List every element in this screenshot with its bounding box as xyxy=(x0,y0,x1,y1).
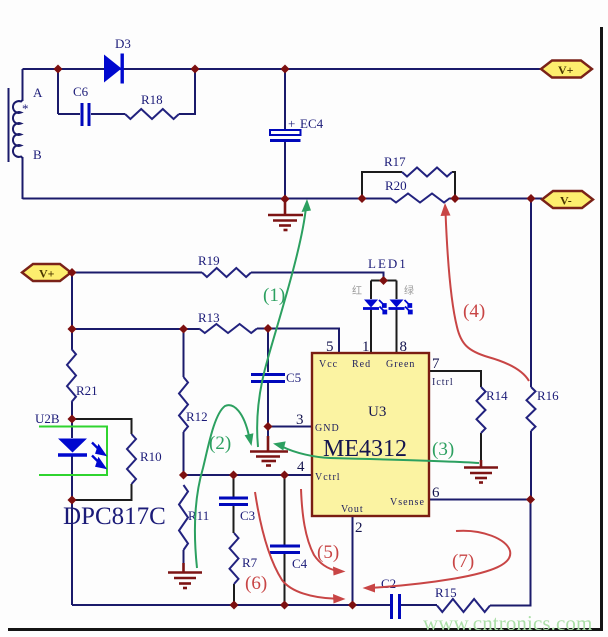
svg-text:EC4: EC4 xyxy=(300,116,324,131)
junction pin4 rail / R12 R11 xyxy=(179,470,188,479)
svg-text:C4: C4 xyxy=(292,556,308,571)
resistor R15 xyxy=(437,599,490,612)
wire C5 top lead xyxy=(267,329,269,373)
svg-text:R18: R18 xyxy=(141,92,163,107)
junction top rail / R18 xyxy=(190,64,199,73)
svg-text:LED1: LED1 xyxy=(368,256,408,271)
svg-text:3: 3 xyxy=(296,412,304,428)
wire V- rail right xyxy=(450,198,542,200)
wire C5 bottom lead to gnd node xyxy=(267,383,269,437)
svg-text:2: 2 xyxy=(355,520,363,536)
svg-text:绿: 绿 xyxy=(404,284,414,297)
resistor R20 leads xyxy=(362,198,455,200)
svg-text:Green: Green xyxy=(386,359,415,370)
svg-text:(3): (3) xyxy=(432,439,454,460)
junction pin4 rail / C3 xyxy=(229,470,238,479)
svg-text:A: A xyxy=(33,85,43,100)
svg-text:R16: R16 xyxy=(537,388,559,403)
junction top rail / EC4 xyxy=(280,64,289,73)
wire C4 to bottom rail xyxy=(284,553,286,605)
svg-text:R7: R7 xyxy=(242,555,258,570)
wire transformer bottom drop xyxy=(22,157,24,199)
resistor R10 xyxy=(127,434,136,484)
svg-text:GND: GND xyxy=(315,423,340,434)
wire V+ to R19 xyxy=(71,272,202,274)
svg-text:1: 1 xyxy=(362,339,370,355)
transformer T winding A-B xyxy=(9,88,23,162)
wire LED green cathode to pin8 xyxy=(396,309,398,353)
resistor R20 xyxy=(390,194,450,203)
wire C6 branch down xyxy=(57,69,59,114)
capacitor C3 xyxy=(219,498,248,505)
ground C5 / pin3 node xyxy=(250,436,288,466)
wire bottom rail V- xyxy=(23,198,391,200)
resistor R13 xyxy=(199,324,257,333)
svg-text:Ictrl: Ictrl xyxy=(432,377,454,388)
wire R14 bottom lead xyxy=(480,433,482,466)
svg-text:www.cntronics.com: www.cntronics.com xyxy=(423,611,592,635)
junction top rail / C6 xyxy=(53,64,62,73)
svg-text:C6: C6 xyxy=(73,84,89,99)
junction R13 rail / C5 xyxy=(263,324,272,333)
junction R20 right xyxy=(450,194,459,203)
svg-text:红: 红 xyxy=(352,284,362,297)
annotation green curve 3 xyxy=(283,447,479,463)
wire LED1 frame xyxy=(371,280,397,282)
svg-text:R17: R17 xyxy=(384,154,406,169)
capacitor EC4 polarized xyxy=(270,130,301,141)
wire bottom rail xyxy=(72,604,390,606)
optocoupler emission arrows xyxy=(92,443,105,468)
wire R15 to R16 column corner xyxy=(490,500,531,606)
svg-text:B: B xyxy=(33,147,42,162)
svg-text:Vout: Vout xyxy=(341,504,364,515)
resistor R7 xyxy=(230,533,239,584)
LED1 green LED xyxy=(389,300,405,309)
svg-text:V+: V+ xyxy=(39,267,55,281)
svg-text:4: 4 xyxy=(297,459,305,475)
power port V- right xyxy=(542,191,593,208)
resistor R17 xyxy=(402,168,452,177)
wire transformer left drop xyxy=(22,69,24,101)
junction C5 gnd / pin3 xyxy=(263,422,272,431)
svg-text:5: 5 xyxy=(326,339,334,355)
svg-text:(6): (6) xyxy=(245,573,267,594)
wire R16 bottom lead xyxy=(530,431,532,500)
svg-text:C2: C2 xyxy=(381,576,396,591)
resistor R11 xyxy=(179,485,188,550)
wire LED red cathode to pin1 xyxy=(370,309,372,353)
svg-text:DPC817C: DPC817C xyxy=(63,503,166,530)
svg-text:R10: R10 xyxy=(140,449,162,464)
wire R11 bottom lead xyxy=(183,550,185,565)
capacitor C2 xyxy=(392,594,400,619)
optocoupler LED xyxy=(58,439,87,456)
wire C6 to R18 xyxy=(91,113,125,115)
svg-text:+: + xyxy=(288,116,295,131)
capacitor C5 xyxy=(251,375,285,382)
wire C3 to R7 xyxy=(233,504,235,533)
svg-text:7: 7 xyxy=(432,356,440,372)
wire opto top to R10 xyxy=(72,419,132,434)
resistor R21 xyxy=(67,349,76,402)
wire R13 to pin5 corner xyxy=(257,329,339,354)
svg-text:C5: C5 xyxy=(286,370,301,385)
wire EC4 top lead xyxy=(284,69,286,130)
junction R21 / opto / R10 xyxy=(67,414,76,423)
wire bottom rail right of C2 xyxy=(400,604,437,606)
capacitor C4 xyxy=(270,546,300,553)
capacitor C6 xyxy=(82,103,89,126)
wire R12 top lead xyxy=(183,329,185,377)
svg-text:R21: R21 xyxy=(76,383,98,398)
junction bottom rail / C4 xyxy=(280,600,289,609)
wire C6 left lead xyxy=(58,113,80,115)
svg-text:C3: C3 xyxy=(240,508,255,523)
svg-text:6: 6 xyxy=(432,485,440,501)
resistor R12 xyxy=(179,377,188,432)
junction EC4 ground node xyxy=(280,194,289,203)
junction R13 rail / R21 column xyxy=(67,324,76,333)
resistor R17 branch leads xyxy=(362,172,455,199)
junction V+ left port xyxy=(67,268,76,277)
svg-text:U3: U3 xyxy=(368,404,386,420)
svg-text:(2): (2) xyxy=(209,433,231,454)
annotation red curve 7 xyxy=(372,531,510,588)
annotation red curve 4 xyxy=(446,212,530,381)
wire R16 top lead xyxy=(530,199,532,388)
diode D3 xyxy=(104,54,124,84)
resistor R18 xyxy=(125,109,179,119)
svg-text:V-: V- xyxy=(560,194,572,208)
wire pin3 stub xyxy=(268,426,312,428)
power port V+ top right xyxy=(541,61,592,78)
power port V+ left xyxy=(22,264,71,281)
junction pin4 rail / C4 xyxy=(280,470,289,479)
svg-text:R13: R13 xyxy=(198,310,220,325)
wire C4 top lead xyxy=(284,475,286,545)
junction pin6 / R16 column xyxy=(526,495,535,504)
wire top rail xyxy=(23,68,542,70)
svg-text:R14: R14 xyxy=(486,388,508,403)
svg-text:8: 8 xyxy=(400,339,408,355)
wire pin7 stub xyxy=(429,371,481,387)
IC U3 ME4312 body xyxy=(312,353,429,516)
junction LED1 anode xyxy=(379,276,388,285)
LED1 red LED xyxy=(363,300,379,309)
junction opto cathode / R10 return xyxy=(67,495,76,504)
wire R12 bottom to pin4 rail xyxy=(183,432,185,475)
LED1 green emission arrows xyxy=(405,300,412,314)
junction bottom rail / R7 xyxy=(229,600,238,609)
wire C3 top lead xyxy=(233,475,235,497)
resistor R19 xyxy=(202,268,251,277)
svg-text:(7): (7) xyxy=(452,551,474,572)
wire EC4 bottom lead xyxy=(284,141,286,199)
wire R13 rail xyxy=(72,328,199,330)
wire R19 to LED1 anode xyxy=(251,273,384,281)
annotation red curve 6 xyxy=(255,492,336,599)
wire R18 up to rail xyxy=(179,69,195,114)
annotation green curve 2 xyxy=(195,405,249,568)
junction V- rail / R16 xyxy=(526,194,535,203)
svg-text:R11: R11 xyxy=(188,508,209,523)
ground EC4 xyxy=(268,199,303,230)
WIRES-TOP xyxy=(23,69,543,199)
junction bottom rail / pin2 xyxy=(348,600,357,609)
wire pin2 stub down xyxy=(352,516,354,605)
resistor R16 xyxy=(527,387,536,431)
resistor R14 xyxy=(477,387,486,433)
svg-text:U2B: U2B xyxy=(35,411,60,426)
svg-text:(4): (4) xyxy=(463,301,485,322)
svg-text:V+: V+ xyxy=(558,63,574,77)
svg-text:Vcc: Vcc xyxy=(319,359,338,370)
svg-text:Red: Red xyxy=(352,359,371,370)
annotation green curve 1 xyxy=(257,207,306,447)
svg-text:D3: D3 xyxy=(115,36,131,51)
wire pin6 stub xyxy=(429,499,531,501)
wire R10 bottom return xyxy=(72,484,132,500)
svg-text:Vctrl: Vctrl xyxy=(315,472,341,483)
svg-text:R12: R12 xyxy=(186,409,208,424)
svg-text:R20: R20 xyxy=(385,178,407,193)
junction R20 left xyxy=(357,194,366,203)
svg-text:(5): (5) xyxy=(317,542,339,563)
ground R14 xyxy=(464,460,498,483)
wire R21 bottom to opto node xyxy=(71,402,73,438)
wire R7 to bottom rail xyxy=(233,584,235,605)
svg-text:*: * xyxy=(22,101,29,116)
svg-text:R15: R15 xyxy=(435,585,457,600)
optocoupler U2B box xyxy=(39,427,107,476)
LED1 red emission arrows xyxy=(379,300,386,314)
svg-text:Vsense: Vsense xyxy=(390,497,425,508)
svg-text:(1): (1) xyxy=(263,285,285,306)
wire opto cathode down xyxy=(71,455,73,605)
junction R13 rail / R12 xyxy=(179,324,188,333)
ground R11 xyxy=(168,563,202,588)
wire pin4 rail xyxy=(184,474,313,476)
svg-text:R19: R19 xyxy=(198,253,220,268)
wire V+ column down to R21 xyxy=(71,273,73,350)
annotation red curve 5 xyxy=(301,489,337,571)
